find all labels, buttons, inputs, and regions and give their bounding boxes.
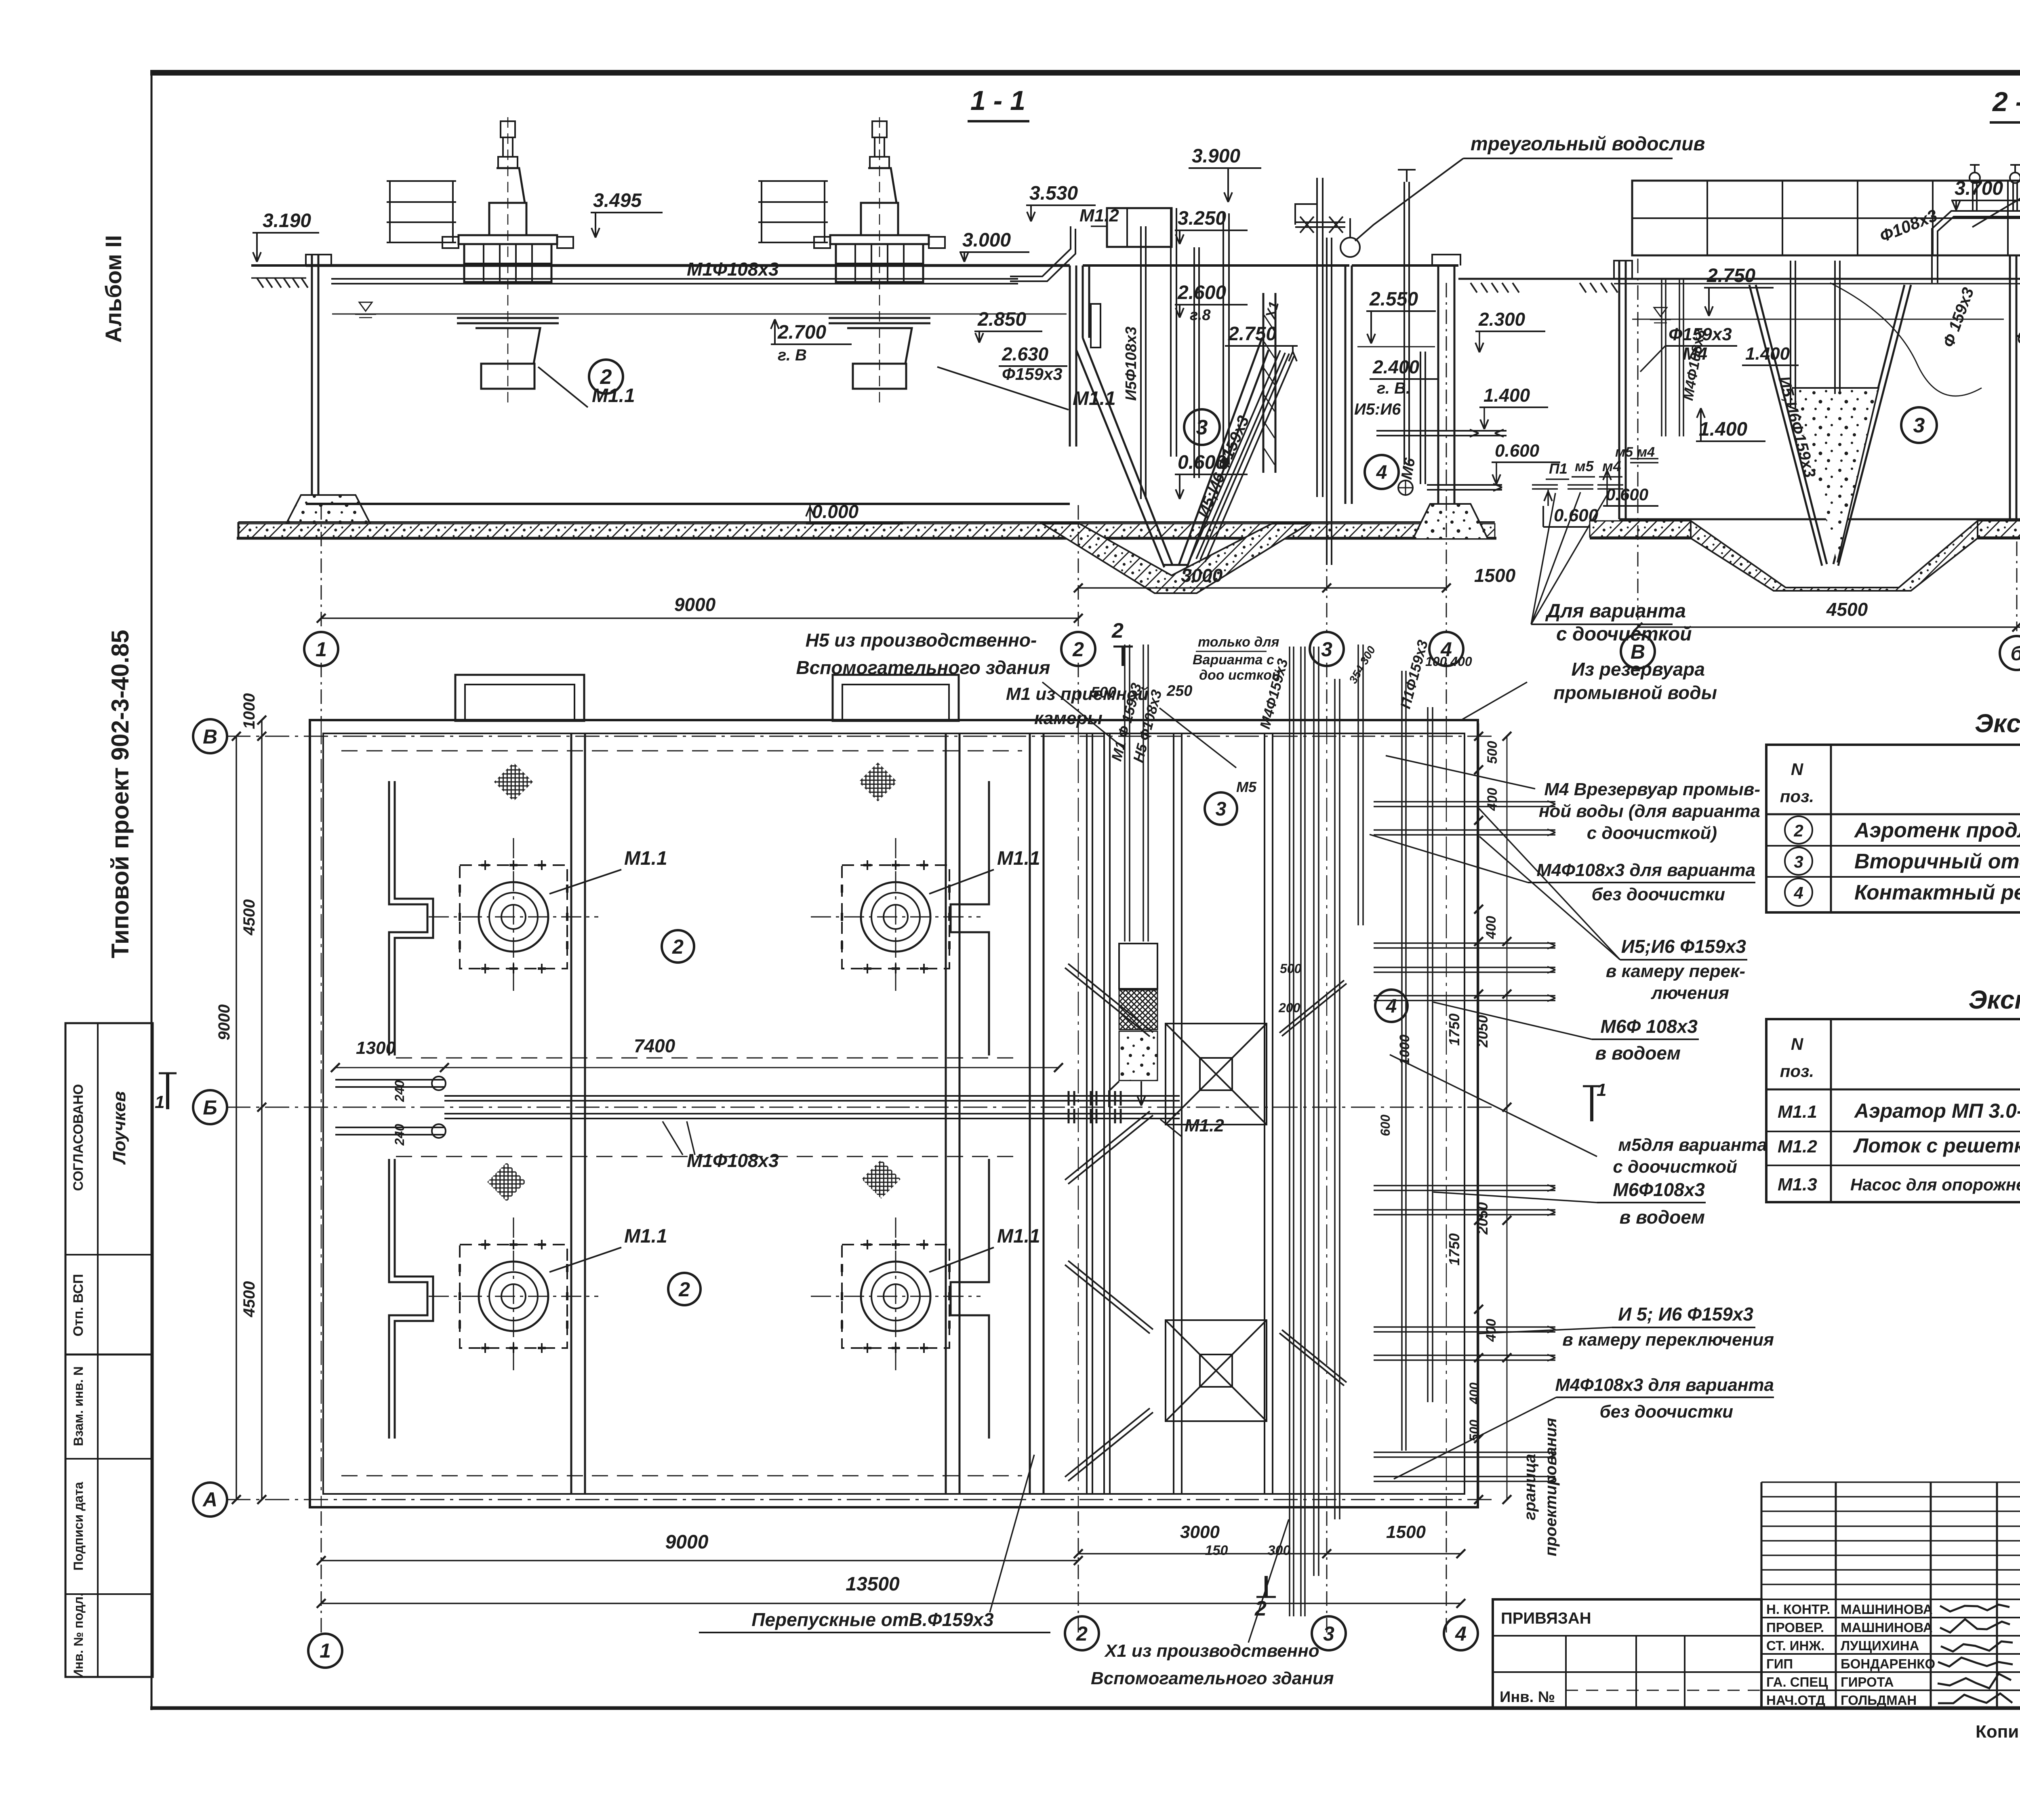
svg-text:9000: 9000 — [215, 1005, 233, 1041]
svg-text:Отп. ВСП: Отп. ВСП — [71, 1274, 86, 1337]
svg-text:4: 4 — [1455, 1622, 1467, 1645]
svg-text:7400: 7400 — [634, 1035, 675, 1056]
svg-text:2050: 2050 — [1474, 1015, 1491, 1048]
svg-text:И 5; И6 Ф159х3: И 5; И6 Ф159х3 — [1618, 1304, 1753, 1325]
svg-text:СТ. ИНЖ.: СТ. ИНЖ. — [1766, 1638, 1824, 1653]
svg-text:1.400: 1.400 — [1483, 385, 1530, 406]
svg-text:2: 2 — [1111, 619, 1124, 642]
svg-text:без доочистки: без доочистки — [1592, 885, 1725, 904]
svg-text:150: 150 — [1205, 1543, 1228, 1558]
svg-text:2: 2 — [600, 365, 612, 389]
svg-text:М1Ф108х3: М1Ф108х3 — [687, 259, 779, 280]
svg-text:Взам. инв. N: Взам. инв. N — [71, 1366, 86, 1446]
svg-text:4500: 4500 — [240, 899, 258, 936]
svg-text:М1.1: М1.1 — [624, 1226, 667, 1247]
svg-text:НАЧ.ОТД: НАЧ.ОТД — [1766, 1693, 1825, 1708]
svg-text:Перепускные отВ.Ф159х3: Перепускные отВ.Ф159х3 — [751, 1609, 994, 1630]
svg-text:только для: только для — [1198, 634, 1279, 650]
svg-text:Типовой проект 902-3-40.85: Типовой проект 902-3-40.85 — [107, 630, 134, 958]
svg-text:м4: м4 — [1637, 444, 1655, 460]
svg-text:1: 1 — [155, 1092, 164, 1112]
svg-text:4: 4 — [1386, 996, 1397, 1017]
svg-text:2050: 2050 — [1474, 1202, 1491, 1235]
svg-text:N: N — [1791, 760, 1804, 779]
svg-text:М1.1: М1.1 — [592, 385, 635, 407]
svg-text:2.850: 2.850 — [977, 309, 1026, 330]
svg-text:2.400: 2.400 — [1372, 356, 1420, 377]
svg-text:Контактный резервуар: Контактный резервуар — [1854, 881, 2020, 904]
svg-text:МАШНИНОВА: МАШНИНОВА — [1841, 1602, 1933, 1617]
svg-text:500: 500 — [1485, 741, 1500, 764]
svg-text:3: 3 — [1913, 414, 1925, 437]
svg-text:И5Ф108х3: И5Ф108х3 — [1123, 327, 1140, 401]
svg-text:Б: Б — [203, 1096, 217, 1119]
svg-text:2: 2 — [1793, 821, 1803, 840]
svg-text:2.750: 2.750 — [1228, 323, 1277, 345]
svg-text:4500: 4500 — [240, 1281, 258, 1318]
svg-text:3: 3 — [1794, 852, 1803, 871]
svg-text:1 - 1: 1 - 1 — [970, 85, 1025, 116]
svg-text:Инв. №: Инв. № — [1500, 1689, 1555, 1706]
svg-text:3.190: 3.190 — [263, 210, 311, 232]
svg-text:ЛУЩИХИНА: ЛУЩИХИНА — [1841, 1638, 1919, 1653]
svg-text:1300: 1300 — [356, 1038, 396, 1058]
svg-text:3.530: 3.530 — [1029, 183, 1078, 204]
svg-text:П1: П1 — [1549, 460, 1568, 477]
svg-text:2.630: 2.630 — [1002, 343, 1049, 364]
svg-text:лючения: лючения — [1651, 983, 1729, 1003]
svg-text:Вспомогательного здания: Вспомогательного здания — [796, 657, 1050, 678]
svg-text:Насос для опорожнения емкосте: Насос для опорожнения емкостей ГНОМ16-15… — [1850, 1175, 2020, 1194]
svg-text:М6Ф 108х3: М6Ф 108х3 — [1600, 1016, 1698, 1037]
svg-text:г.8: г.8 — [1190, 307, 1211, 324]
svg-text:Х1 из производственно: Х1 из производственно — [1104, 1641, 1319, 1661]
svg-text:400: 400 — [1485, 788, 1500, 811]
svg-text:1: 1 — [1597, 1080, 1606, 1100]
svg-text:N: N — [1791, 1034, 1804, 1053]
svg-text:Альбом II: Альбом II — [101, 235, 126, 343]
svg-text:2.550: 2.550 — [1369, 289, 1418, 310]
svg-text:2.750: 2.750 — [1706, 265, 1755, 286]
svg-text:4: 4 — [1376, 462, 1387, 483]
svg-text:ГА. СПЕЦ: ГА. СПЕЦ — [1766, 1675, 1828, 1689]
svg-text:9000: 9000 — [665, 1531, 709, 1553]
svg-text:СОГЛАСОВАНО: СОГЛАСОВАНО — [71, 1084, 86, 1191]
svg-text:М1.2: М1.2 — [1185, 1116, 1224, 1135]
svg-text:И5;И6 Ф159х3: И5;И6 Ф159х3 — [1621, 936, 1746, 957]
svg-text:1000: 1000 — [1397, 1034, 1412, 1065]
svg-text:200: 200 — [1278, 1001, 1300, 1015]
svg-text:М1.1: М1.1 — [997, 1226, 1040, 1247]
svg-text:ПРОВЕР.: ПРОВЕР. — [1766, 1620, 1824, 1635]
svg-text:МАШНИНОВА: МАШНИНОВА — [1841, 1620, 1933, 1635]
svg-text:М6Ф108х3: М6Ф108х3 — [1613, 1179, 1705, 1200]
svg-text:проектирования: проектирования — [1542, 1418, 1560, 1557]
svg-text:1.400: 1.400 — [1699, 419, 1747, 440]
svg-text:3: 3 — [1196, 416, 1208, 439]
svg-text:поз.: поз. — [1780, 787, 1814, 806]
svg-text:И5:И6: И5:И6 — [1354, 400, 1401, 418]
svg-text:250: 250 — [1166, 682, 1192, 699]
svg-text:БОНДАРЕНКО: БОНДАРЕНКО — [1841, 1656, 1935, 1671]
svg-text:3.250: 3.250 — [1178, 208, 1226, 229]
svg-text:В: В — [203, 725, 217, 748]
svg-text:ГОЛЬДМАН: ГОЛЬДМАН — [1841, 1693, 1917, 1708]
svg-text:2: 2 — [1076, 1622, 1088, 1645]
svg-text:0.600: 0.600 — [1495, 441, 1540, 461]
svg-text:Варианта с: Варианта с — [1193, 652, 1274, 668]
svg-text:3.900: 3.900 — [1192, 145, 1240, 167]
svg-text:1: 1 — [316, 638, 327, 661]
svg-text:Н. КОНТР.: Н. КОНТР. — [1766, 1602, 1830, 1617]
svg-text:1000: 1000 — [240, 693, 258, 729]
svg-text:М5: М5 — [1236, 779, 1257, 795]
svg-text:4500: 4500 — [1826, 599, 1868, 620]
svg-text:1750: 1750 — [1446, 1233, 1462, 1266]
svg-text:9000: 9000 — [674, 594, 716, 615]
svg-text:4: 4 — [1793, 883, 1803, 902]
svg-text:500: 500 — [1091, 684, 1116, 701]
svg-text:г. В.: г. В. — [1377, 379, 1410, 397]
svg-text:13500: 13500 — [846, 1574, 900, 1595]
svg-text:Экспликация сооружений: Экспликация сооружений — [1975, 709, 2020, 738]
svg-text:2.300: 2.300 — [1478, 309, 1526, 330]
svg-text:2: 2 — [672, 935, 684, 958]
svg-text:2 - 2: 2 - 2 — [1992, 86, 2020, 117]
svg-text:г. В: г. В — [778, 346, 807, 364]
svg-text:М4 Врезервуар промыв-: М4 Врезервуар промыв- — [1544, 779, 1760, 799]
svg-text:Из резервуара: Из резервуара — [1572, 659, 1705, 680]
svg-text:граница: граница — [1521, 1454, 1539, 1520]
svg-text:треугольный водослив: треугольный водослив — [1471, 133, 1705, 155]
svg-text:2: 2 — [1072, 638, 1084, 661]
svg-text:3.495: 3.495 — [593, 190, 642, 211]
svg-text:поз.: поз. — [1780, 1062, 1814, 1081]
svg-text:ной воды (для варианта: ной воды (для варианта — [1539, 801, 1760, 821]
svg-text:1750: 1750 — [1446, 1013, 1462, 1046]
svg-text:Экспликация оборудования: Экспликация оборудования — [1968, 985, 2020, 1014]
svg-text:Инв. № подл.: Инв. № подл. — [71, 1593, 86, 1679]
svg-text:ПРИВЯЗАН: ПРИВЯЗАН — [1501, 1609, 1591, 1627]
svg-text:без доочистки: без доочистки — [1600, 1402, 1734, 1422]
svg-text:2.700: 2.700 — [777, 322, 826, 343]
svg-text:М1.1: М1.1 — [624, 848, 667, 869]
svg-text:400: 400 — [1483, 916, 1499, 939]
svg-text:Аэратор МП 3.0-1.0: Аэратор МП 3.0-1.0 — [1854, 1100, 2020, 1122]
svg-text:1.400: 1.400 — [1745, 344, 1790, 364]
svg-text:м5: м5 — [1615, 444, 1633, 460]
svg-text:в водоем: в водоем — [1595, 1043, 1681, 1064]
svg-text:Лоток с решеткой и водосливо: Лоток с решеткой и водосливом — [1853, 1134, 2020, 1157]
svg-text:3.000: 3.000 — [962, 230, 1011, 251]
svg-text:2.600: 2.600 — [1177, 282, 1226, 303]
svg-text:Лоучкев: Лоучкев — [109, 1091, 129, 1165]
svg-text:240: 240 — [392, 1124, 407, 1146]
svg-text:3: 3 — [1216, 798, 1227, 820]
svg-text:0.600: 0.600 — [1606, 485, 1648, 504]
svg-text:240: 240 — [392, 1080, 407, 1102]
svg-text:600: 600 — [1378, 1114, 1393, 1136]
svg-text:М1.3: М1.3 — [1778, 1175, 1817, 1194]
svg-text:Для варианта: Для варианта — [1545, 600, 1686, 622]
svg-text:в водоем: в водоем — [1620, 1207, 1705, 1228]
svg-text:Подписи дата: Подписи дата — [71, 1482, 86, 1571]
svg-text:Копировал: Копировал — [1976, 1722, 2020, 1742]
svg-text:М1.2: М1.2 — [1778, 1137, 1817, 1156]
svg-text:3: 3 — [1323, 1622, 1334, 1645]
svg-text:0.000: 0.000 — [812, 501, 859, 522]
svg-text:100 400: 100 400 — [1425, 654, 1472, 669]
svg-text:ГИРОТА: ГИРОТА — [1841, 1675, 1894, 1689]
svg-text:1500: 1500 — [1386, 1522, 1426, 1542]
svg-text:М1.1: М1.1 — [997, 848, 1040, 869]
svg-text:Ф159х3: Ф159х3 — [1002, 364, 1063, 383]
svg-text:ГИП: ГИП — [1766, 1656, 1793, 1671]
svg-text:500: 500 — [1280, 961, 1302, 976]
svg-text:Вспомогательного здания: Вспомогательного здания — [1091, 1668, 1334, 1688]
svg-text:400: 400 — [1467, 1382, 1481, 1405]
svg-text:400: 400 — [1483, 1319, 1499, 1342]
svg-text:с доочисткой: с доочисткой — [1613, 1157, 1737, 1177]
svg-text:1500: 1500 — [1474, 565, 1516, 586]
svg-text:3.700: 3.700 — [1955, 178, 2003, 199]
svg-text:2: 2 — [678, 1278, 690, 1301]
svg-text:б: б — [2011, 642, 2020, 665]
svg-text:А: А — [202, 1488, 217, 1511]
svg-text:1: 1 — [320, 1639, 331, 1662]
svg-text:доо исткой: доо исткой — [1199, 668, 1280, 683]
svg-text:с доочисткой): с доочисткой) — [1587, 823, 1717, 843]
svg-text:3000: 3000 — [1181, 565, 1223, 586]
svg-text:Аэротенк продленной аэрации: Аэротенк продленной аэрации — [1854, 819, 2020, 842]
svg-text:М1.2: М1.2 — [1079, 206, 1119, 225]
svg-text:3000: 3000 — [1180, 1522, 1220, 1542]
svg-text:м5для варианта: м5для варианта — [1618, 1135, 1767, 1155]
svg-text:в камеру переключения: в камеру переключения — [1562, 1330, 1774, 1350]
svg-text:М1Ф108х3: М1Ф108х3 — [687, 1150, 779, 1171]
svg-text:М4Ф108х3 для варианта: М4Ф108х3 для варианта — [1555, 1375, 1774, 1395]
svg-text:в камеру перек-: в камеру перек- — [1606, 961, 1745, 981]
svg-text:м5: м5 — [1575, 458, 1594, 474]
svg-text:Н5 из производственно-: Н5 из производственно- — [806, 630, 1037, 651]
svg-text:3: 3 — [1321, 638, 1332, 661]
svg-text:М1.1: М1.1 — [1778, 1102, 1817, 1122]
svg-text:М4Ф108х3 для варианта: М4Ф108х3 для варианта — [1536, 860, 1755, 880]
svg-text:промывной воды: промывной воды — [1553, 682, 1717, 703]
svg-text:Вторичный отстойник: Вторичный отстойник — [1854, 850, 2020, 873]
svg-text:камеры: камеры — [1034, 708, 1103, 728]
